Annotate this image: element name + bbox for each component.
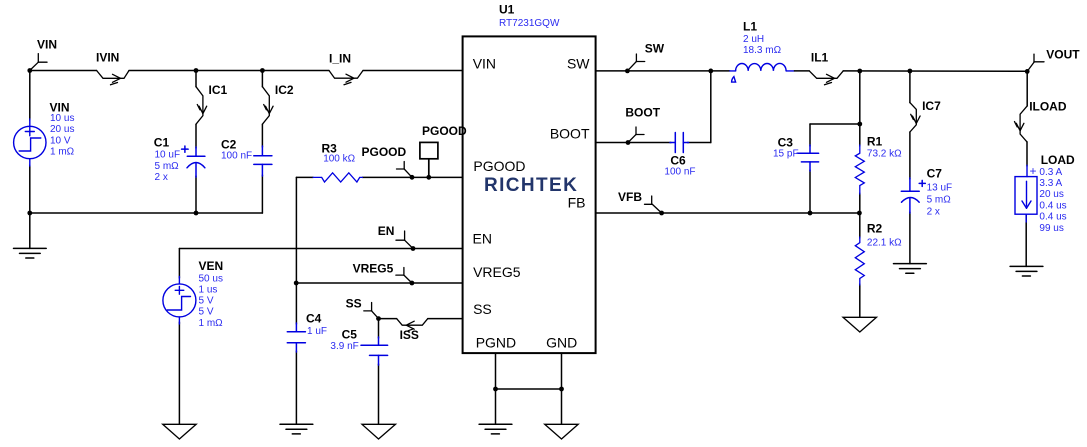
node VFB tick xyxy=(645,196,662,213)
wire PGND-GND connector xyxy=(496,388,562,390)
svg-text:IVIN: IVIN xyxy=(96,51,119,65)
svg-text:5 V: 5 V xyxy=(199,296,214,307)
junction dot SS xyxy=(376,316,381,321)
svg-text:SW: SW xyxy=(645,42,665,56)
junction dot EN xyxy=(411,246,416,251)
svg-text:2 x: 2 x xyxy=(927,206,940,217)
svg-text:VEN: VEN xyxy=(199,259,224,273)
capacitor C3 xyxy=(797,145,819,171)
svg-text:BOOT: BOOT xyxy=(550,126,590,142)
svg-text:3.3 A: 3.3 A xyxy=(1039,178,1062,189)
wire C5 branch xyxy=(378,319,380,425)
node SW tick xyxy=(627,54,644,71)
capacitor C7 xyxy=(901,178,925,213)
voltage source VEN xyxy=(163,277,196,325)
svg-text:99 us: 99 us xyxy=(1039,223,1063,234)
wire C4 branch xyxy=(295,283,297,424)
current probe I_IN xyxy=(329,71,363,85)
svg-text:BOOT: BOOT xyxy=(625,106,660,120)
svg-text:FB: FB xyxy=(568,195,586,211)
svg-text:IC2: IC2 xyxy=(275,83,294,97)
svg-text:C3: C3 xyxy=(778,135,794,149)
load LOAD value labels xyxy=(1039,167,1066,234)
node SS tick xyxy=(364,303,379,319)
node VREG5 tick xyxy=(396,268,412,284)
svg-text:C4: C4 xyxy=(306,312,322,326)
svg-text:5 V: 5 V xyxy=(199,307,214,318)
svg-text:100 nF: 100 nF xyxy=(221,151,252,162)
svg-text:18.3 mΩ: 18.3 mΩ xyxy=(743,45,782,56)
ground earth under LOAD xyxy=(1010,266,1043,276)
voltage source VEN value labels xyxy=(199,273,224,329)
current probe IC1 xyxy=(196,87,207,125)
capacitor C5 xyxy=(361,337,388,365)
wire FB row xyxy=(596,212,860,214)
svg-text:PGND: PGND xyxy=(476,335,516,351)
junction dots top and bottom bus xyxy=(27,68,264,215)
svg-text:ILOAD: ILOAD xyxy=(1029,99,1067,113)
ground triangle under GND xyxy=(545,424,579,439)
svg-text:C5: C5 xyxy=(342,328,358,342)
svg-text:GND: GND xyxy=(546,335,577,351)
wire L1 to VOUT xyxy=(794,70,1027,72)
op-amp U1 box RT7231GQW xyxy=(463,36,596,353)
svg-text:10 us: 10 us xyxy=(50,113,74,124)
wire VIN source column xyxy=(29,71,31,249)
svg-text:LOAD: LOAD xyxy=(1041,153,1075,167)
svg-text:73.2 kΩ: 73.2 kΩ xyxy=(867,149,902,160)
svg-text:+: + xyxy=(1030,164,1037,178)
svg-text:20 us: 20 us xyxy=(50,124,74,135)
resistor R1 xyxy=(855,145,864,194)
wire R3 to VREG5 column xyxy=(295,177,297,283)
svg-text:PGOOD: PGOOD xyxy=(473,158,525,174)
svg-text:IC7: IC7 xyxy=(922,99,941,113)
ground earth under C4 xyxy=(280,424,313,434)
wire GND branch xyxy=(561,353,563,424)
svg-text:15 pF: 15 pF xyxy=(773,149,799,160)
svg-text:1 uF: 1 uF xyxy=(307,326,327,337)
svg-text:VIN: VIN xyxy=(37,38,57,52)
svg-text:5 mΩ: 5 mΩ xyxy=(155,161,180,172)
svg-text:22.1 kΩ: 22.1 kΩ xyxy=(867,238,902,249)
svg-text:RICHTEK: RICHTEK xyxy=(484,175,578,196)
svg-text:5 mΩ: 5 mΩ xyxy=(927,195,952,206)
wire bottom input bus xyxy=(30,212,263,214)
wire C1 branch xyxy=(195,71,197,214)
svg-text:C7: C7 xyxy=(927,166,943,180)
svg-text:1 mΩ: 1 mΩ xyxy=(199,318,224,329)
svg-text:C2: C2 xyxy=(221,138,237,152)
junction dot BOOT xyxy=(626,140,631,145)
svg-text:SS: SS xyxy=(473,301,492,317)
svg-text:EN: EN xyxy=(378,224,395,238)
node VIN tick top-left xyxy=(30,54,47,71)
svg-text:0.4 us: 0.4 us xyxy=(1039,212,1066,223)
current probe ILOAD xyxy=(1015,106,1028,142)
RIGHT-SECTION xyxy=(596,20,1081,333)
junction dots PGND GND xyxy=(493,387,564,392)
capacitor C2 xyxy=(254,146,272,176)
PGOOD output port square xyxy=(420,142,438,177)
svg-text:0.4 us: 0.4 us xyxy=(1039,200,1066,211)
wire PGND branch xyxy=(495,353,497,424)
svg-text:10 uF: 10 uF xyxy=(155,150,181,161)
svg-text:PGOOD: PGOOD xyxy=(362,145,407,159)
svg-text:3.9 nF: 3.9 nF xyxy=(330,341,358,352)
capacitor C4 xyxy=(287,323,305,352)
ground earth under C7 xyxy=(894,264,927,274)
svg-text:PGOOD: PGOOD xyxy=(422,124,467,138)
junction dots VREG5 row xyxy=(294,281,414,286)
ground earth under VIN source xyxy=(14,248,47,258)
svg-text:RT7231GQW: RT7231GQW xyxy=(499,18,560,29)
current probe IC2 xyxy=(262,87,273,125)
svg-text:VREG5: VREG5 xyxy=(353,261,394,275)
svg-text:I_IN: I_IN xyxy=(329,52,351,66)
svg-text:L1: L1 xyxy=(743,20,757,34)
svg-text:VREG5: VREG5 xyxy=(473,264,521,280)
svg-text:R2: R2 xyxy=(867,222,883,236)
svg-text:100 kΩ: 100 kΩ xyxy=(323,154,355,165)
wire ILOAD column xyxy=(1026,71,1027,266)
capacitor C7 value labels xyxy=(927,183,953,218)
svg-text:C6: C6 xyxy=(670,153,686,167)
junction dots FB row xyxy=(659,122,862,216)
voltage source VIN value labels xyxy=(50,113,75,158)
capacitor C1 xyxy=(182,146,205,177)
svg-text:2 uH: 2 uH xyxy=(743,34,764,45)
svg-text:20 us: 20 us xyxy=(1039,189,1063,200)
node VOUT tick xyxy=(1027,54,1044,71)
wire IC7 column xyxy=(909,71,911,264)
svg-text:SS: SS xyxy=(346,296,362,310)
svg-text:IC1: IC1 xyxy=(209,83,228,97)
ground triangle under VEN xyxy=(163,424,197,439)
load current source LOAD xyxy=(1015,165,1037,222)
resistor R3 xyxy=(313,173,362,182)
svg-text:0.3 A: 0.3 A xyxy=(1039,167,1062,178)
ground triangle under R2 xyxy=(843,317,877,332)
current probe IC7 xyxy=(910,103,920,132)
svg-text:VOUT: VOUT xyxy=(1046,48,1080,62)
junction dots PGOOD row xyxy=(410,175,432,180)
resistor R2 xyxy=(855,237,864,285)
svg-text:C1: C1 xyxy=(154,136,170,150)
node PGOOD tick xyxy=(397,162,413,178)
wire SW row to L1 xyxy=(596,70,730,72)
svg-text:VFB: VFB xyxy=(618,190,642,204)
node EN tick xyxy=(396,231,413,249)
svg-text:1 us: 1 us xyxy=(199,285,218,296)
inductor L1 xyxy=(730,63,795,82)
svg-text:U1: U1 xyxy=(499,3,515,17)
svg-text:1 mΩ: 1 mΩ xyxy=(50,147,75,158)
current probe IVIN xyxy=(97,71,129,85)
wire VREG5 row xyxy=(296,282,463,284)
wire BOOT row xyxy=(596,71,711,143)
capacitor C1 value labels xyxy=(155,150,181,184)
MID-SECTION xyxy=(280,3,596,440)
wire R2 column xyxy=(859,213,861,317)
LEFT-SECTION xyxy=(14,38,463,440)
svg-text:10 V: 10 V xyxy=(50,135,71,146)
ground triangle under C5 xyxy=(362,424,396,439)
svg-text:VIN: VIN xyxy=(473,56,496,72)
capacitor C6 xyxy=(670,133,689,153)
junction dots output row xyxy=(857,69,1029,74)
inductor L1 value labels xyxy=(743,34,782,56)
svg-text:EN: EN xyxy=(473,231,492,247)
wire SS row xyxy=(379,318,463,320)
svg-text:100 nF: 100 nF xyxy=(664,167,695,178)
svg-text:SW: SW xyxy=(567,56,590,72)
svg-text:IL1: IL1 xyxy=(811,50,829,64)
wire top bus VIN to U1 xyxy=(30,70,463,72)
svg-text:13 uF: 13 uF xyxy=(927,183,953,194)
ground earth under PGND xyxy=(479,424,512,434)
voltage source VIN xyxy=(14,119,46,166)
svg-text:2 x: 2 x xyxy=(155,172,168,183)
current probe ISS xyxy=(397,319,428,331)
wire EN row from VEN xyxy=(179,249,462,425)
wire C2 branch xyxy=(261,71,263,214)
svg-text:50 us: 50 us xyxy=(199,273,223,284)
wire PGOOD row xyxy=(296,176,462,178)
node BOOT tick xyxy=(628,127,644,143)
svg-text:R1: R1 xyxy=(867,134,883,148)
wire R1 column xyxy=(859,71,861,213)
svg-text:ISS: ISS xyxy=(400,328,419,342)
current probe IL1 xyxy=(809,71,843,85)
wire C3 top tap xyxy=(810,124,860,213)
junction dots SW row xyxy=(625,69,713,74)
